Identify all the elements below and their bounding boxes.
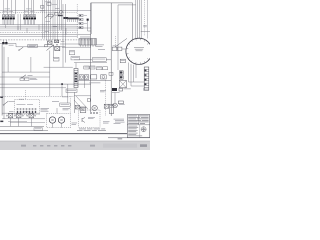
wire motor drop — [74, 92, 76, 113]
lamp L2 box with X — [16, 114, 21, 118]
wire dashed bus y38.8 — [0, 39, 91, 41]
label box right-mid — [92, 58, 106, 61]
frame line echo — [0, 134, 150, 136]
label box lower mid with text — [60, 103, 70, 106]
gauge box pair g1 — [112, 47, 117, 50]
fuse holder F1 box — [20, 78, 24, 80]
connector CN-L1 label text — [3, 10, 7, 13]
relay stack right k5 — [119, 71, 123, 75]
text under squares — [9, 44, 14, 47]
connector CN-L1 comb upper ticks — [3, 14, 14, 17]
wire y84.1 — [0, 83, 91, 85]
wire vertical mid-gap x18 — [17, 14, 19, 30]
compass petals — [143, 128, 145, 130]
hourmeter switch diagonal left of circle — [115, 38, 127, 47]
black terminal square pair right — [5, 42, 7, 44]
black terminal square pair left — [2, 42, 4, 44]
terminal block fills — [80, 15, 82, 28]
wire mid vertical x53.4 — [52, 45, 54, 57]
relay stack k5 fill mark — [120, 71, 122, 73]
wire vertical top-left x11.5 — [11, 0, 13, 14]
stacked box r2 text — [110, 104, 113, 107]
label text under y80 wire — [89, 82, 100, 85]
side text right of controller — [103, 121, 110, 124]
fuse row text — [48, 12, 52, 15]
wire bus row y32.6 dashed — [0, 32, 78, 34]
key switch inner text — [17, 103, 26, 106]
wire lamp bottom feed — [2, 118, 45, 120]
gauge box pair g2 — [117, 47, 122, 50]
lamp L1 X — [8, 114, 13, 118]
trunk wire inner corner — [118, 5, 136, 70]
battery plates — [81, 109, 85, 111]
relay stack k6 fill mark — [120, 76, 122, 78]
trunk wire vertical x90.7 — [90, 3, 92, 112]
motor M1 label — [51, 119, 54, 122]
terminal block TB1 — [79, 14, 83, 16]
title block bottom line — [108, 137, 150, 139]
chip connector bottom pin ticks — [81, 45, 96, 47]
frame line full width — [0, 133, 150, 135]
title block table border — [127, 115, 149, 138]
wire stub right of circle — [141, 31, 150, 33]
wire vertical x65.3 long — [64, 4, 66, 63]
sensor boxes row2 s3 — [90, 75, 96, 79]
motor box side text — [72, 122, 78, 125]
big circular connector CN9 — [126, 38, 152, 64]
alternator spokes — [93, 106, 97, 110]
breaker box left lines — [7, 57, 9, 72]
aux box top bundle b — [47, 3, 51, 5]
harness tiny label — [143, 24, 147, 27]
labeled boxes text — [84, 66, 88, 69]
viewer bar light field — [103, 144, 137, 148]
compass cross — [141, 127, 146, 132]
wire y92.6 short — [112, 92, 120, 94]
caption text line 2 — [77, 129, 106, 132]
wire bus row y34.6 — [0, 34, 91, 36]
stub from black square a — [2, 40, 4, 42]
wire y46.8 — [16, 43, 65, 46]
junction small box — [87, 99, 90, 102]
mid text smudge b — [62, 96, 69, 99]
connector bar right-small — [67, 18, 79, 20]
small box near motor — [118, 101, 123, 104]
bundle inner label 3 — [45, 31, 50, 34]
wire lamp drop 2 — [18, 118, 20, 127]
wire vertical top-left x3.5 — [3, 0, 5, 14]
wire mid horizontal y77 — [0, 76, 50, 78]
switch SW-A contact circle — [18, 50, 19, 51]
switch SW-A diagonal — [20, 47, 24, 50]
connector CN-L2 body bar segments — [23, 17, 36, 19]
page background — [0, 0, 150, 150]
trunk wire vertical x111.2 — [110, 3, 112, 116]
wire lamp drop 1 — [10, 118, 12, 127]
connector CN-L1 body bar segments — [2, 17, 15, 19]
ladder rungs — [144, 69, 149, 87]
small motor circle M4 — [113, 103, 118, 108]
wire dashed vertical x25.3 — [24, 90, 26, 100]
text right of blob — [123, 88, 130, 91]
small junction box text — [35, 128, 42, 131]
controller contact circles — [90, 112, 98, 114]
stub from black square b — [5, 40, 7, 42]
controller dashed box bottom-center — [79, 110, 100, 127]
wire jog to ladder — [129, 82, 145, 86]
resistor box R1 with label — [28, 44, 38, 47]
wire drop from junction — [61, 84, 63, 97]
wire ground bus y130.5 — [0, 130, 48, 132]
lamp lead circle e — [35, 115, 36, 116]
relay K2 X mark — [55, 40, 59, 43]
fusible link black square — [87, 19, 89, 21]
motor box top text left — [41, 107, 50, 110]
terminal stack dashed rail x77.2 — [76, 4, 78, 38]
bus connection stub 2 — [17, 26, 19, 30]
viewer bar control marks — [21, 145, 95, 147]
wire right mid y62.6 — [74, 62, 107, 64]
wire bottom of breaker box — [2, 71, 50, 73]
wire dashed vertical upper mid-right — [114, 36, 116, 47]
small box text — [121, 59, 125, 62]
title table compass symbol — [141, 127, 146, 132]
terminal block TB4 — [79, 26, 83, 28]
lamp L2 X — [16, 114, 21, 118]
aux bar top bundle — [58, 15, 63, 16]
viewer bar top edge — [0, 140, 150, 142]
relay stack right k6 — [119, 76, 123, 80]
wire ground bus y126.4 — [0, 125, 44, 127]
label box mid text — [67, 89, 76, 92]
battery box — [80, 107, 86, 113]
sensor s1 circle — [80, 76, 83, 79]
caption text line 1 — [79, 128, 105, 131]
alternator circle — [92, 105, 97, 110]
harness dashed vertical x144.6 — [144, 0, 146, 36]
relay K3 X mark — [55, 47, 60, 51]
lamp lead circle a — [6, 115, 7, 116]
wire partial y122.7 — [10, 122, 45, 124]
wire top label text center — [45, 1, 51, 4]
aux box top bundle c — [55, 13, 59, 16]
relay stack right k7 box — [119, 80, 126, 87]
CN9 inner text lines — [134, 46, 144, 49]
controller transistor symbol — [82, 118, 85, 123]
wire y43.4 left — [0, 42, 16, 44]
title table header text rows — [128, 116, 148, 124]
chip connector rungs — [80, 39, 95, 46]
wire right mid y59.8 — [74, 59, 111, 61]
breaker box right line — [30, 57, 32, 72]
junction dot A — [53, 45, 54, 46]
harness label text mid-right — [96, 44, 104, 47]
wire vertical top-left x24.5 — [24, 0, 26, 14]
stacked box right r1 X — [104, 104, 108, 108]
labeled box row b4 — [103, 67, 108, 70]
sensor s2 circle — [85, 76, 88, 79]
labeled box row b1 — [84, 66, 89, 69]
wire jog right of cluster y44 — [60, 43, 80, 45]
relay K3 box — [55, 47, 60, 51]
faint box far right — [144, 88, 149, 91]
ladder dark cells — [145, 70, 147, 85]
chip connector strip top-mid — [79, 39, 96, 46]
motor M2 circle — [58, 117, 64, 123]
stacked box right r1 — [104, 104, 108, 108]
title table vertical divider lower — [139, 125, 141, 138]
wire bus top dashed — [0, 12, 77, 14]
wire bundle vertical group center-top — [43, 0, 62, 41]
viewer chrome gray bar — [0, 141, 150, 150]
switch stroke top bundle b — [50, 16, 54, 20]
wire vertical top-left x7.6 — [7, 0, 9, 14]
label box right-mid text — [93, 58, 105, 61]
wire diagonal 2 — [74, 100, 83, 110]
connector CN-L2 comb upper ticks — [24, 14, 35, 17]
wire lamp top feed — [2, 112, 40, 114]
resistor box R1 text — [29, 44, 37, 47]
aux text top bundle b — [55, 7, 59, 10]
terminal block TB2 — [79, 18, 83, 20]
bus connection stub 1 — [5, 25, 7, 28]
connector CN-L2 box row above — [24, 15, 36, 17]
starter X — [75, 105, 79, 109]
labeled box row b2 — [90, 66, 95, 69]
wire mid vertical x70.2 dashed — [69, 96, 71, 113]
stacked box right r2 — [109, 104, 113, 113]
ladder CN5 rungs — [74, 70, 78, 85]
mid small box text — [54, 57, 58, 60]
key switch label text — [19, 98, 24, 101]
label text near trunk mid — [100, 89, 106, 92]
wire vertical x91.7 twin — [91, 3, 93, 34]
key switch dashed enclosure — [15, 100, 40, 115]
bus connection stub 4 — [38, 25, 40, 31]
wire into motor box top — [56, 108, 58, 113]
label box mid with text — [66, 89, 77, 92]
wire motors to bus — [53, 123, 62, 128]
label box right of cluster — [71, 57, 80, 60]
key switch contact row — [17, 108, 36, 109]
wire bus top horizontal 1 — [0, 9, 91, 11]
harness bundle to circle verticals — [136, 0, 141, 39]
wire lamp drop 3 — [30, 118, 32, 127]
dark connector blob left of stack — [112, 88, 117, 91]
bundle inner label 1 — [46, 21, 51, 24]
fuse holder F2 box — [25, 78, 29, 80]
component small box text — [70, 51, 74, 54]
battery disconnect switch diagonal — [22, 75, 26, 78]
connector bar right-small ticks — [68, 19, 78, 22]
starter box with X — [75, 105, 79, 109]
lamp lead circle b — [14, 115, 15, 116]
small motor cross — [113, 104, 116, 107]
bundle inner label 2 — [53, 26, 58, 29]
wire y80.3 — [74, 79, 111, 81]
wire dashed vertical x105.4 — [104, 80, 106, 116]
left rail wire x2.1 — [1, 44, 3, 115]
fuse holder label text — [30, 77, 37, 80]
relay cluster K2 coil box — [55, 40, 59, 43]
left rail second wire x4 — [3, 47, 5, 119]
comb label extra row right — [26, 8, 31, 11]
ignition switch arc — [4, 101, 9, 105]
wire bus row y26.2 — [0, 25, 78, 27]
bus connection stub 3 — [26, 28, 28, 33]
title block left notes text — [114, 118, 125, 121]
controller inner text — [88, 116, 95, 119]
trunk wire corner to circle — [132, 3, 134, 40]
text near motor — [119, 103, 125, 106]
lamp L1 box with X — [8, 114, 13, 118]
relay k7 X — [119, 80, 126, 87]
wire vertical top-left x28.5 — [28, 0, 30, 14]
small box next to blob — [119, 88, 123, 91]
lamp label text b — [24, 110, 29, 113]
battery switch label text — [28, 74, 33, 77]
small box under circle left — [120, 59, 125, 63]
labeled box row b3 — [96, 67, 102, 70]
mid small box with label — [53, 57, 59, 61]
wire y87.8 — [0, 87, 66, 89]
wire vertical x63 long — [62, 4, 64, 67]
wire vertical top-left x33.5 — [33, 0, 35, 14]
wire bus row y36.6 — [0, 36, 78, 38]
title table vertical divider — [138, 115, 140, 125]
bus connection stub 5 — [65, 28, 67, 35]
key switch terminal marks — [17, 111, 36, 113]
wire y95.8 short — [74, 95, 91, 97]
small marks row bottom right-mid — [109, 72, 113, 75]
wire jog right of cluster y47.2 — [62, 46, 91, 48]
wire stub from stack — [88, 21, 91, 31]
lamp lead circle c — [22, 115, 23, 116]
relay cluster K1 coil box — [48, 41, 53, 44]
wire drop to label box — [67, 84, 69, 103]
label box lower mid text — [61, 103, 70, 106]
wire bus row y28 — [0, 27, 91, 29]
mid text smudge a — [52, 100, 59, 103]
connector CN-L2 lower ticks — [24, 19, 35, 24]
label box right of cluster text — [72, 57, 79, 60]
aux text top bundle a — [40, 10, 45, 13]
switch arm diagonal — [47, 46, 53, 51]
wire bus row y30.1 — [0, 29, 78, 31]
wire vertical x84.4 — [83, 75, 85, 88]
junction dot on ground bus — [61, 83, 63, 85]
lamp lead circle d — [27, 115, 28, 116]
connector CN-L2 label text — [24, 10, 28, 13]
terminal block TB3 — [79, 22, 83, 24]
chip connector top text — [80, 36, 90, 39]
ladder connector mid CN5 body — [74, 69, 78, 88]
ladder CN5 feed wire — [75, 63, 77, 69]
wire vertical top-left x31.5 — [31, 0, 33, 14]
small junction box under lamps — [34, 128, 42, 131]
terminal stack text labels — [84, 14, 87, 17]
motor box top text right — [63, 107, 71, 110]
page number text under title block — [118, 137, 123, 140]
wire vertical mid-gap x20.5 — [20, 14, 22, 30]
ignition switch contacts — [3, 104, 4, 105]
comb label extra row left — [5, 8, 10, 11]
wire diagonal 1 — [76, 96, 88, 109]
wire mid vertical x49.8 — [49, 51, 51, 97]
wires below circle verticals — [129, 63, 137, 87]
motor M1 circle — [49, 117, 55, 123]
sensor boxes row2 s2 — [84, 75, 88, 80]
lamp L3 X — [29, 114, 34, 118]
lamp label text a — [9, 110, 14, 113]
junction blob left edge b — [0, 121, 3, 123]
fuse row small boxes on bus — [48, 14, 53, 16]
lamp L3 box with X — [29, 114, 34, 118]
relay cluster text tag — [61, 40, 65, 43]
sensor boxes row2 s1 — [79, 75, 83, 80]
relay K1 X mark — [48, 41, 53, 44]
diode D1 mark — [64, 17, 69, 19]
controller top label text — [80, 107, 86, 110]
battery switch contact — [21, 77, 22, 78]
connector CN-L1 lower ticks — [3, 19, 14, 24]
gauge text — [113, 45, 118, 48]
wire switch to key box — [9, 101, 15, 103]
motor enclosure dashed box — [47, 113, 71, 127]
sensor s4 inner circle — [102, 76, 105, 79]
wire vertical right edge — [146, 0, 148, 39]
title table left column text — [128, 126, 142, 136]
ladder connector right edge — [144, 67, 149, 90]
relay cluster junction dot B — [56, 44, 57, 45]
trunk wire horizontal y2.9 — [91, 2, 133, 4]
aux circle top bundle — [60, 11, 63, 14]
component small box right — [69, 51, 74, 55]
relay cluster extra contact box — [45, 45, 48, 47]
wire mid horizontal y67.2 — [44, 66, 73, 68]
viewer bar right marks — [140, 144, 147, 147]
CN9 rim ticks — [126, 38, 148, 64]
wire drop to small motor — [114, 93, 116, 104]
aux box top bundle a — [41, 6, 44, 9]
sensor s4 circle in box — [101, 75, 107, 79]
wire vertical top-left x15.5 — [15, 0, 17, 14]
junction blob left edge a — [0, 97, 3, 98]
connector CN-L1 box row above — [2, 15, 14, 17]
wire partial y121.3 — [8, 120, 27, 122]
wire bus row y24.6 — [0, 24, 78, 26]
wire dashed y94.8 — [0, 96, 74, 98]
switch stroke top bundle a — [45, 15, 49, 19]
wire gauge to circle — [122, 48, 126, 50]
title table divider — [127, 124, 149, 126]
motor M2 label — [60, 119, 63, 122]
ladder CN5 dark cells — [75, 73, 77, 82]
